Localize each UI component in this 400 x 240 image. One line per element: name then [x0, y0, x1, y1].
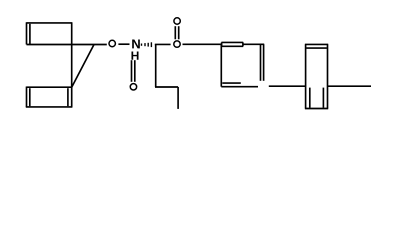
- ring2 right double bond inner line: [322, 88, 324, 108]
- atom label N: [132, 39, 140, 48]
- fluorene bottom ring bottom edge: [26, 106, 73, 108]
- fluorene shared right vertical bond: [71, 22, 73, 107]
- ring1 right double bond outer line: [263, 44, 265, 81]
- atom O (carbonyl O, top): [174, 18, 180, 24]
- fluorene bottom ring right double bond inner line: [67, 88, 69, 106]
- ester C=O double bond line 2: [178, 26, 180, 39]
- bond ring1 to ring2: [269, 85, 306, 87]
- ring1 left edge: [220, 44, 222, 86]
- fluorene bottom ring left edge: [26, 87, 28, 107]
- ring2 top edge: [305, 43, 328, 45]
- fluorene five-ring diagonal bond: [72, 45, 94, 88]
- ring2 right edge: [327, 44, 329, 108]
- fluorene top ring bottom edge + bond to O: [27, 44, 107, 46]
- side chain horizontal: [155, 86, 178, 88]
- bond ring2 to methyl: [328, 85, 372, 87]
- ring1 top single bond: [243, 43, 264, 45]
- atom O (ester O, on chain): [174, 41, 180, 47]
- fluorene bottom ring top edge: [27, 86, 72, 88]
- ring1 right double bond inner line: [260, 45, 262, 81]
- ring2 bottom edge: [305, 108, 328, 110]
- ring1 top double bond lower line: [221, 45, 243, 47]
- ring2 top double bond inner line: [306, 47, 327, 49]
- ester C=O double bond line 1: [174, 26, 176, 39]
- fluorene top ring left edge: [26, 22, 28, 44]
- N=O double bond line 1: [131, 60, 133, 82]
- hashed stereo bond N to stereocenter: [142, 42, 152, 47]
- ring1 bottom double bond inner line: [222, 82, 241, 84]
- atom label H (on N): [131, 52, 138, 60]
- fluorene bottom ring left double bond inner line: [29, 88, 31, 106]
- ring2 left edge: [305, 44, 307, 108]
- bond stereocenter to ester O: [155, 43, 171, 45]
- ring1 bottom edge: [221, 86, 258, 88]
- fluorene top ring top edge: [27, 22, 72, 24]
- bond ester O to benzyl ring: [183, 43, 222, 45]
- fluorene top ring left double bond inner line: [29, 24, 31, 45]
- ring1 top double bond upper line: [221, 41, 243, 43]
- atom O (fluorenylmethyl O): [109, 40, 115, 46]
- ring1 top double bond end caps: [221, 42, 223, 46]
- side chain terminal vertical: [177, 87, 179, 109]
- ring2 left double bond inner line: [309, 88, 311, 108]
- N=O double bond line 2: [134, 60, 136, 82]
- bond O to N: [118, 43, 129, 45]
- atom O (below N): [130, 84, 136, 90]
- stereocenter to side chain vertical: [155, 44, 157, 87]
